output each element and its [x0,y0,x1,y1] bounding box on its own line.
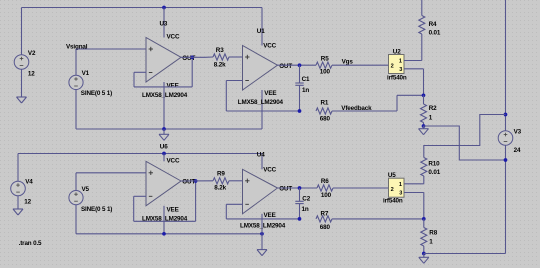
svg-text:R5: R5 [321,55,329,62]
wire V2 top to positive rail [22,8,263,55]
label LMX58_LM2904 of U4 [240,222,286,229]
wire V5 minus down to lower rail [75,205,77,234]
svg-text:OUT: OUT [279,63,292,70]
svg-text:VEE: VEE [264,212,276,219]
svg-text:0.01: 0.01 [428,169,440,176]
node U6 output junction [194,179,198,183]
node junction lower positive rail / U6 VCC [162,152,166,156]
node U3 output junction [190,55,194,59]
wire V3 minus down [505,145,507,253]
svg-text:1n: 1n [302,206,309,213]
label OUT of U4 [279,186,292,193]
wire upper VEE rail [76,128,262,130]
voltage source V1 [69,75,83,89]
wire U1 VEE pin [261,90,263,129]
wire U1 VCC pin [261,8,263,46]
resistor R1 [316,108,332,114]
svg-text:8.2k: 8.2k [214,185,226,192]
wire R6 to U5 gate [333,187,389,189]
svg-text:VCC: VCC [167,34,180,41]
label R4 [429,21,437,28]
svg-text:12: 12 [24,198,31,205]
label irf540n of U5 [383,198,403,205]
svg-text:V2: V2 [28,50,36,57]
svg-text:irf540n: irf540n [387,75,407,82]
wire bottom rail to V3 minus [424,253,506,255]
label V4 [25,178,33,185]
label VCC of U3 [167,34,180,41]
resistor R2 [421,104,427,123]
node R2 bottom junction [422,124,426,128]
svg-text:.tran 0.5: .tran 0.5 [19,240,42,247]
wire U4 VCC pin [261,154,263,170]
capacitor C1 [295,83,303,85]
node U2 source junction [422,93,426,97]
wire U2 source pin [404,69,424,96]
wire V1 minus down to VEE rail [75,90,77,130]
wire Vfeedback run [332,95,424,111]
svg-text:R4: R4 [429,21,437,28]
voltage source V4 [11,181,26,196]
svg-text:1n: 1n [302,87,309,94]
wire U6 VEE pin [163,206,165,234]
wire U4 feedback left [225,204,227,219]
node C1 bottom junction [298,109,302,113]
svg-text:2: 2 [391,63,394,69]
resistor R3 [213,54,229,60]
label R6 [321,178,329,185]
label VEE of U1 [264,90,276,97]
wire U6 inverting input stub [134,195,146,197]
svg-text:VCC: VCC [263,166,276,173]
label VCC of U1 [263,43,276,50]
label U6 [160,143,168,150]
label OUT of U6 [182,179,195,186]
wire Vsignal node [76,49,146,75]
svg-text:Vgs: Vgs [342,58,354,65]
resistor R6 [317,185,333,191]
label R2 [429,105,437,112]
label 1n of C1 [302,87,309,94]
wire U4 feedback bottom to C2 [226,218,299,220]
wire U3 out to R3 [181,56,213,58]
wire U1 out [278,64,317,66]
label LMX58_LM2904 of U3 [142,92,188,99]
label irf540n of U2 [387,75,407,82]
label 680 of R7 [320,224,331,231]
node junction top rail / U3 VCC [162,6,166,10]
wire U1 inverting input stub [226,80,242,82]
svg-text:R1: R1 [321,100,329,107]
wire R2 bottom [423,123,425,127]
svg-text:VEE: VEE [264,90,276,97]
svg-text:680: 680 [320,115,331,122]
wire U6 feedback bottom [134,220,196,222]
svg-text:V1: V1 [82,70,90,77]
label LMX58_LM2904 of U6 [142,215,188,222]
voltage source V5 [69,191,83,205]
label OUT of U3 [182,55,195,62]
wire U4 VEE pin down [261,214,263,234]
label OUT of U1 [279,63,292,70]
transistor U5 (irf540n) [389,178,405,197]
label VCC of U6 [167,157,180,164]
node U1 output junction [298,63,302,67]
label 1n of C2 [302,206,309,213]
voltage source V3 [498,131,513,146]
svg-text:3: 3 [399,67,402,73]
label R3 [216,47,224,54]
ground at upper rail [159,134,169,140]
label SINE(0 5 1) of V1 [81,90,112,97]
svg-text:C1: C1 [302,76,310,83]
wire V2 minus to ground [21,69,23,97]
label LMX58_LM2904 of U1 [238,99,284,106]
label R9 [217,171,225,178]
label 12 (V4 value) [24,198,31,205]
svg-text:U1: U1 [257,28,265,35]
label SINE(0 5 1) of V5 [81,206,112,213]
svg-text:OUT: OUT [182,179,195,186]
label .tran 0.5 directive [19,240,42,247]
wire U3 VCC pin [163,8,165,38]
wire U6 feedback left [133,196,135,221]
label Vgs net [342,58,354,65]
svg-text:V5: V5 [82,186,90,193]
svg-text:R7: R7 [321,211,329,218]
ground at V4 [13,209,23,215]
label 100 of R5 [320,69,331,76]
svg-text:2: 2 [391,187,394,193]
wire lower VEE rail [76,233,262,235]
label C2 [302,195,310,202]
wire R5 to U2 gate [332,64,389,66]
svg-text:SINE(0 5 1): SINE(0 5 1) [81,90,112,97]
node junction lower rail / U6 VEE [162,232,166,236]
wire V3 plus to R10 (step) [424,115,506,158]
label 8.2k of R9 [214,185,226,192]
svg-text:V4: V4 [25,178,33,185]
wire V4 top to lower positive rail [18,154,262,182]
label R5 [321,55,329,62]
label V3 [514,128,522,135]
node junction upper rail / U3 VEE [162,127,166,131]
node junction lower rail / U4 VEE [260,232,264,236]
op-amp U3 [146,38,181,83]
label VEE of U6 [167,206,179,213]
op-amp U1 [243,46,278,91]
label 0.01 of R10 [428,169,440,176]
svg-text:LMX58_LM2904: LMX58_LM2904 [240,222,286,229]
label 1 of R8 [429,238,433,245]
resistor R10 [421,158,427,177]
wire V5 node [76,173,146,191]
svg-text:U3: U3 [160,20,168,27]
wire C1 bottom [299,85,301,111]
svg-text:8.2k: 8.2k [214,61,226,68]
wire U5 source pin [404,193,424,219]
svg-text:VCC: VCC [263,43,276,50]
ground at V2 [17,97,27,103]
svg-text:R8: R8 [429,230,437,237]
label VEE of U4 [264,212,276,219]
wire U3 feedback left [133,72,135,87]
label V1 [82,70,90,77]
svg-text:U5: U5 [388,172,396,179]
ground at R8 [419,257,429,263]
label C1 [302,76,310,83]
voltage source V2 [14,55,29,70]
label U4 [257,152,265,159]
svg-text:R9: R9 [217,171,225,178]
wire C2 bottom [299,204,301,219]
label U3 [160,20,168,27]
wire R2 bottom to V3 minus (step) [424,126,506,160]
resistor R5 [316,62,332,68]
svg-text:VCC: VCC [167,157,180,164]
op-amp U4 [243,169,278,214]
svg-text:V3: V3 [514,128,522,135]
wire R4 top [421,0,423,16]
svg-text:R2: R2 [429,105,437,112]
wire U3 feedback bottom [134,86,192,88]
svg-text:24: 24 [514,147,521,154]
ground at R2 [419,129,429,135]
svg-text:R6: R6 [321,178,329,185]
svg-text:R10: R10 [428,161,440,168]
node U5 source junction [422,217,426,221]
ground at lower rail [257,250,267,256]
wire R2 ground stub [423,126,425,129]
node R8 bottom junction [422,252,426,256]
label Vfeedback net [341,105,372,112]
svg-text:C2: C2 [302,195,310,202]
label U5 [388,172,396,179]
wire U5 source to R8 [423,219,425,228]
svg-text:3: 3 [399,191,402,197]
wire U1 feedback bottom to C1 [226,110,299,112]
label U2 [393,48,401,55]
wire R10 bottom to U5 drain [404,176,424,184]
resistor R8 [421,228,427,247]
resistor R7 [316,216,332,222]
label 1 of R2 [429,114,433,121]
wire V3 plus rail up [505,0,507,131]
wire U2 source to R2 [423,95,425,104]
svg-text:12: 12 [28,71,35,78]
label R8 [429,230,437,237]
node U4 output junction [298,186,302,190]
svg-text:irf540n: irf540n [383,198,403,205]
label VCC of U4 [263,166,276,173]
wire ground stub lower rail [261,234,263,250]
wire V4 minus to ground [17,196,19,209]
label 0.01 of R4 [429,29,441,36]
svg-text:U6: U6 [160,143,168,150]
wire R7 to U5 source junction [332,218,424,220]
label V5 [82,186,90,193]
svg-text:100: 100 [320,69,331,76]
svg-text:OUT: OUT [279,186,292,193]
op-amp U6 [146,161,181,206]
label 680 of R1 [320,115,331,122]
transistor U2 (irf540n) [389,55,405,74]
wire C2 top [299,188,301,201]
label 12 (V2 value) [28,71,35,78]
capacitor C2 [295,201,303,203]
wire R4 bottom to U2 drain [421,34,423,61]
label 24 of V3 [514,147,521,154]
svg-text:LMX58_LM2904: LMX58_LM2904 [238,99,284,106]
wire U4 inverting input stub [226,203,242,205]
label 8.2k of R3 [214,61,226,68]
svg-text:U4: U4 [257,152,265,159]
svg-text:1: 1 [399,182,402,188]
label VEE of U3 [167,83,179,90]
svg-text:680: 680 [320,224,331,231]
label V2 [28,50,36,57]
node V3 bottom junction [504,158,508,162]
wire R8 bottom [423,246,425,254]
wire C1 top [299,65,301,83]
label Vsignal net [66,43,88,50]
svg-text:U2: U2 [393,48,401,55]
resistor R4 [419,16,425,35]
svg-text:100: 100 [321,192,332,199]
svg-text:SINE(0 5 1): SINE(0 5 1) [81,206,112,213]
wire U4 out [278,187,318,189]
svg-text:VEE: VEE [167,83,179,90]
wire U3 VEE pin [163,82,165,129]
wire U6 feedback up to output [195,181,197,221]
wire U3 inverting input stub [134,71,146,73]
resistor R9 [213,178,229,184]
wire U1 feedback left [225,81,227,112]
svg-text:VEE: VEE [167,206,179,213]
svg-text:LMX58_LM2904: LMX58_LM2904 [142,92,188,99]
svg-text:R3: R3 [216,47,224,54]
wire R9 to U4 noninverting input [229,180,243,182]
label R1 [321,100,329,107]
node C2 bottom junction [298,217,302,221]
wire R3 to U1 noninverting input [229,56,243,58]
label R7 [321,211,329,218]
svg-text:1: 1 [399,58,402,64]
label U1 [257,28,265,35]
wire U6 VCC pin [163,154,165,162]
wire U6 out to R9 [181,180,213,182]
wire U3 feedback up to output [191,57,193,87]
wire U2 drain pin [404,60,422,62]
svg-text:0.01: 0.01 [429,29,441,36]
node V3 top junction [504,113,508,117]
wire R8 ground stub [423,254,425,258]
wire ground stub upper rail [163,129,165,134]
label 100 of R6 [321,192,332,199]
label R10 [428,161,440,168]
